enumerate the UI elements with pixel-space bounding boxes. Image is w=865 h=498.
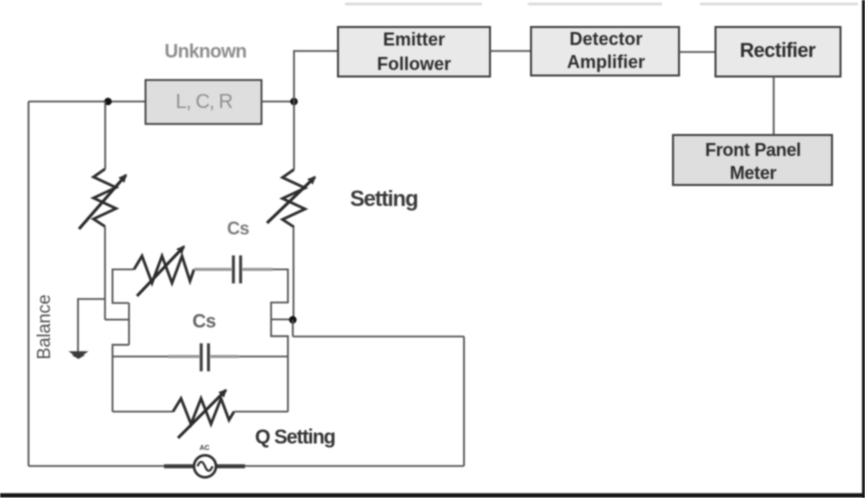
resistor R4 (Q setting, variable) xyxy=(173,399,234,425)
wire: R2 down to node B xyxy=(293,227,295,320)
capacitor C1 lead left (thick) xyxy=(194,268,232,271)
box: Detector Amplifier xyxy=(531,27,679,76)
wire: Emitter Follower to Detector Amplifier xyxy=(490,50,531,52)
wire: Rectifier down to Front Panel Meter xyxy=(773,77,775,136)
wire: right outer vertical of lower loop xyxy=(463,337,465,467)
arrow of variable resistor R1 xyxy=(79,175,126,229)
svg-text:Amplifier: Amplifier xyxy=(567,52,645,72)
wire: L,C,R box right to node C xyxy=(262,101,295,103)
box: Emitter Follower xyxy=(338,27,490,77)
wire: left outer vertical (balance arm) xyxy=(28,102,30,467)
wire: C2 to right comb vertical xyxy=(239,356,288,358)
resistor R1 (left balance arm, variable) xyxy=(94,169,117,227)
svg-text:L, C, R: L, C, R xyxy=(176,91,233,113)
svg-text:Rectifier: Rectifier xyxy=(740,40,816,62)
resistor R2 (right Setting arm, variable) xyxy=(283,170,306,228)
svg-text:AC: AC xyxy=(199,445,209,452)
wire: node B down to bottom-right run xyxy=(292,320,294,337)
capacitor C2 lead right (thick) xyxy=(210,355,238,358)
arrow of variable resistor R2 xyxy=(267,177,315,223)
box: unknown L,C,R xyxy=(146,80,262,124)
svg-text:Balance: Balance xyxy=(34,294,54,359)
capacitor C2 lead left (thick) xyxy=(168,355,199,358)
svg-text:Cs: Cs xyxy=(192,312,215,333)
wire: bottom horizontal to AC source xyxy=(29,465,465,467)
wire: C1 to right comb xyxy=(271,269,288,411)
svg-text:Detector: Detector xyxy=(569,29,642,49)
wire: Q row right xyxy=(234,411,288,413)
wire: horizontal from node B to right outer vertical xyxy=(293,336,464,338)
wire: Detector Amplifier to Rectifier xyxy=(679,51,715,53)
capacitor C1 lead right (thick) xyxy=(243,268,274,271)
right comb stub to node B xyxy=(271,318,291,320)
AC source V1 thick lead left xyxy=(164,464,194,468)
svg-text:Unknown: Unknown xyxy=(165,42,247,63)
svg-text:Front Panel: Front Panel xyxy=(705,140,801,160)
page border right xyxy=(862,0,865,498)
wire: node C up and right to Emitter Follower xyxy=(294,51,338,102)
svg-text:Q Setting: Q Setting xyxy=(255,427,335,449)
box: Rectifier xyxy=(716,27,841,77)
faint cropped artifact line above Emitter Follower xyxy=(345,3,482,5)
AC source V1 circle xyxy=(194,455,216,477)
left comb stub H4 and drop V4 xyxy=(113,345,130,412)
node C junction dot (right of L,C,R) xyxy=(290,98,298,106)
ground wire from left comb xyxy=(78,299,105,352)
faint cropped artifact line above Rectifier xyxy=(700,3,858,5)
box: Front Panel Meter xyxy=(673,135,832,185)
AC source V1 thick lead right xyxy=(216,464,245,468)
svg-text:Follower: Follower xyxy=(377,54,451,74)
left comb stub at node (V1 to V3) xyxy=(105,319,129,321)
wire: top-left horizontal from outer loop to L,C,R box xyxy=(29,101,147,103)
arrow of variable resistor R4 xyxy=(178,390,226,438)
node B junction dot xyxy=(289,316,297,324)
wire: top row left corner xyxy=(113,269,135,303)
wire: Q row left xyxy=(113,411,174,413)
page border bottom xyxy=(0,493,865,497)
faint cropped artifact line above Detector Amplifier xyxy=(528,3,662,5)
node A junction dot (left of L,C,R) xyxy=(104,98,112,106)
AC source V1 sine xyxy=(198,462,213,471)
svg-text:Setting: Setting xyxy=(350,186,418,211)
wire: node A down to R1 xyxy=(104,102,106,170)
wire: R1 down to left comb xyxy=(104,227,106,320)
resistor R3 (balance-row variable resistor) xyxy=(134,256,194,283)
capacitor C2 plates xyxy=(200,343,203,371)
wire: lower Cs row left (thin) xyxy=(113,356,169,358)
ground xyxy=(69,351,89,359)
svg-text:Cs: Cs xyxy=(227,219,249,239)
svg-text:Meter: Meter xyxy=(730,163,777,183)
capacitor C1 plates xyxy=(232,255,235,283)
left comb vertical V3 xyxy=(128,303,130,345)
wire: node C down to R2 xyxy=(293,102,295,170)
arrow of variable resistor R3 xyxy=(137,247,184,297)
svg-text:Emitter: Emitter xyxy=(383,30,445,50)
